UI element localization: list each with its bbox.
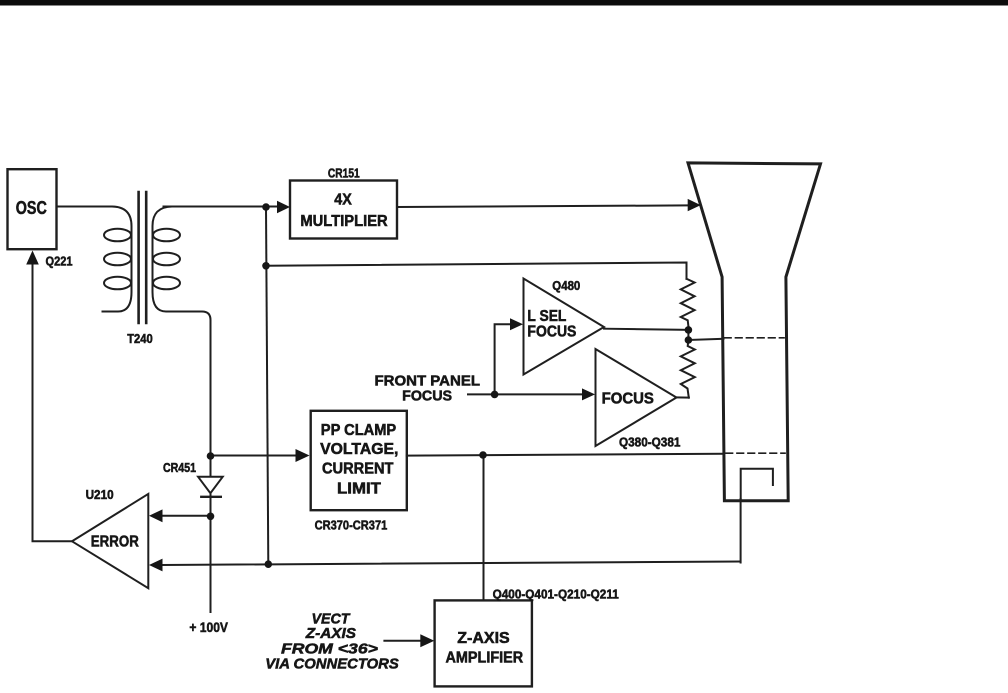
svg-text:VOLTAGE,: VOLTAGE, <box>320 441 398 458</box>
svg-text:L SEL: L SEL <box>527 308 566 325</box>
svg-text:MULTIPLIER: MULTIPLIER <box>300 213 388 230</box>
svg-text:OSC: OSC <box>16 198 47 218</box>
svg-text:CR370-CR371: CR370-CR371 <box>315 518 388 533</box>
svg-text:Z-AXIS: Z-AXIS <box>457 630 509 647</box>
svg-text:Q380-Q381: Q380-Q381 <box>619 436 680 450</box>
svg-text:FOCUS: FOCUS <box>602 390 655 407</box>
svg-text:U210: U210 <box>86 488 114 502</box>
svg-text:T240: T240 <box>127 332 153 346</box>
svg-text:CURRENT: CURRENT <box>322 460 394 477</box>
svg-text:FOCUS: FOCUS <box>527 323 576 340</box>
svg-text:AMPLIFIER: AMPLIFIER <box>446 649 524 666</box>
svg-text:PP CLAMP: PP CLAMP <box>321 422 396 439</box>
svg-text:Q400-Q401-Q210-Q211: Q400-Q401-Q210-Q211 <box>493 586 619 601</box>
svg-text:4X: 4X <box>334 191 352 208</box>
svg-text:Q480: Q480 <box>552 279 580 293</box>
svg-text:+ 100V: + 100V <box>189 619 228 635</box>
svg-text:CR451: CR451 <box>163 461 196 475</box>
svg-text:VIA CONNECTORS: VIA CONNECTORS <box>265 656 399 673</box>
svg-text:ERROR: ERROR <box>91 533 139 550</box>
svg-text:CR151: CR151 <box>328 167 360 181</box>
svg-text:Q221: Q221 <box>46 254 73 268</box>
svg-text:FOCUS: FOCUS <box>402 388 452 404</box>
svg-text:LIMIT: LIMIT <box>337 481 381 498</box>
svg-text:FRONT PANEL: FRONT PANEL <box>375 373 481 389</box>
